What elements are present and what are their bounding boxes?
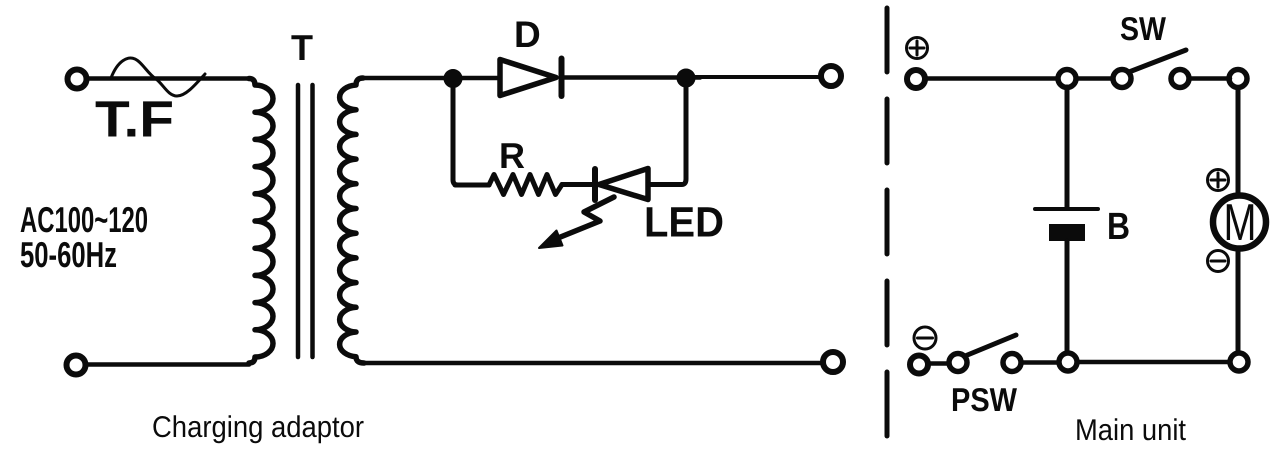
bottom-right corner junction circle <box>1230 353 1248 371</box>
wire node C down to battery <box>1065 87 1070 208</box>
wire LED to right branch up <box>648 84 686 185</box>
wire branch to resistor <box>455 183 489 188</box>
switch SW throw contact <box>1171 70 1189 88</box>
svg-text:B: B <box>1107 206 1130 248</box>
wire motor down to bottom-right corner <box>1236 249 1241 353</box>
switch PSW throw contact <box>1003 354 1021 372</box>
terminal DC output top-right <box>821 66 841 86</box>
svg-text:Charging adaptor: Charging adaptor <box>152 411 364 444</box>
wire corner down to motor <box>1236 88 1241 194</box>
LED emission arrowhead <box>539 231 563 249</box>
minus polarity symbol bottom-left of main unit <box>914 327 936 349</box>
LED triangle <box>599 169 648 200</box>
terminal AC input top-left <box>68 70 87 89</box>
wire node C to switch SW <box>1076 76 1113 81</box>
terminal main unit negative <box>910 356 928 374</box>
wire secondary top to node A <box>363 76 499 81</box>
LED cathode bar <box>592 169 598 200</box>
svg-text:T.F: T.F <box>95 91 174 148</box>
svg-text:Main unit: Main unit <box>1075 414 1187 447</box>
thermal fuse T.F sine mark <box>111 58 205 96</box>
diode D <box>500 60 556 96</box>
wire top primary <box>88 76 249 81</box>
wire node A branch down <box>453 84 458 185</box>
transformer T primary winding <box>249 79 273 364</box>
wire bottom primary <box>87 362 249 367</box>
svg-text:SW: SW <box>1120 10 1167 47</box>
wire battery down to node D <box>1065 241 1070 353</box>
minus polarity symbol motor <box>1208 251 1229 272</box>
wire bottom-right corner to node D <box>1077 360 1230 365</box>
svg-text:R: R <box>499 135 525 176</box>
switch SW lever <box>1129 50 1186 72</box>
battery B positive plate <box>1035 207 1098 211</box>
transformer core line right <box>310 85 315 357</box>
battery B negative plate <box>1049 224 1085 241</box>
motor M <box>1213 196 1266 249</box>
svg-text:PSW: PSW <box>951 381 1018 418</box>
node D junction circle <box>1059 353 1077 371</box>
node A junction dot <box>444 70 462 88</box>
svg-text:LED: LED <box>644 200 724 247</box>
wire SW to top-right corner <box>1189 76 1230 81</box>
wire node B to output terminal <box>694 75 819 79</box>
svg-text:T: T <box>291 27 313 68</box>
top-right corner junction circle <box>1229 70 1247 88</box>
plus polarity symbol top-left of main unit <box>907 38 928 59</box>
switch SW pole contact <box>1113 70 1131 88</box>
switch PSW pole contact <box>949 354 967 372</box>
wire PSW to negative terminal <box>930 361 949 366</box>
wire secondary bottom to output <box>364 361 821 366</box>
svg-text:M: M <box>1224 194 1257 252</box>
plus polarity symbol motor <box>1208 170 1229 191</box>
wire node D to PSW <box>1021 360 1059 365</box>
transformer T secondary winding <box>340 78 364 363</box>
node B junction dot <box>677 69 695 87</box>
terminal main unit positive <box>907 70 925 88</box>
svg-text:D: D <box>514 14 541 55</box>
terminal DC output bottom-right <box>823 352 843 372</box>
transformer core line left <box>296 85 301 357</box>
wire resistor to LED <box>562 182 594 187</box>
svg-text:50-60Hz: 50-60Hz <box>20 234 117 275</box>
diode D cathode bar <box>559 59 565 97</box>
LED emission arrow <box>558 197 614 238</box>
switch PSW lever <box>965 335 1016 356</box>
wire diode to node B <box>561 75 700 80</box>
resistor R <box>489 175 562 195</box>
terminal AC input bottom-left <box>67 356 86 375</box>
dashed separator line <box>885 8 890 442</box>
node C junction circle <box>1058 70 1076 88</box>
wire positive terminal to node C <box>926 76 1058 81</box>
